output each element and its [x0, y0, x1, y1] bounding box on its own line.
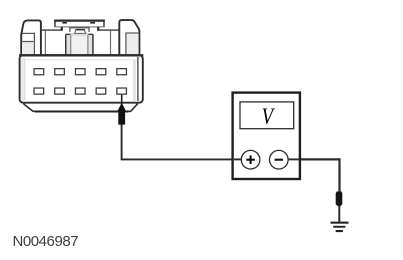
inline probe on ground lead: [336, 192, 343, 208]
voltmeter body: [233, 93, 300, 179]
latch tab: [75, 30, 86, 34]
connector latch bar: [54, 20, 105, 28]
connector left tab: [21, 20, 41, 56]
pin cavity 3 row 1: [75, 69, 85, 75]
pin cavity 5 row 2 (probed): [117, 88, 127, 94]
pin cavity 2 row 1: [55, 69, 65, 75]
latch supports: [61, 27, 63, 31]
pin cavity 1 row 1: [34, 69, 44, 75]
wire from connector pin to voltmeter positive lead: [122, 122, 233, 159]
connector housing base: [20, 55, 143, 102]
housing left inner shade: [21, 58, 25, 101]
latch stem inner walls: [67, 35, 93, 55]
housing right inner wall: [133, 60, 136, 101]
connector face top edge: [41, 29, 119, 31]
wire from voltmeter negative lead to ground: [300, 159, 340, 194]
face ribs: [44, 31, 46, 55]
housing top edge thick line: [19, 54, 143, 56]
connector right tab: [119, 20, 139, 56]
connector bottom skirt: [24, 97, 137, 111]
label N0046987: [13, 233, 79, 250]
latch stem: [66, 34, 93, 55]
pin cavity 5 row 1: [117, 69, 127, 75]
pin cavity 3 row 2: [75, 88, 85, 94]
pin cavity 4 row 2: [96, 88, 106, 94]
pin cavity 4 row 1: [96, 69, 106, 75]
housing face shading line: [22, 59, 138, 61]
ground symbol: [331, 222, 349, 233]
voltmeter internal lead wires: [234, 158, 241, 160]
left tab inner lines: [22, 42, 34, 54]
pin cavity 1 row 2: [34, 88, 44, 94]
wire from probe to ground: [338, 206, 340, 222]
voltmeter display window: [240, 102, 294, 129]
voltmeter positive terminal: [241, 150, 260, 169]
test probe lead at pin 5: [121, 95, 123, 105]
pin cavity 2 row 2: [55, 88, 65, 94]
right tab inner lines: [127, 34, 139, 55]
latch button: [70, 28, 89, 32]
voltmeter negative terminal: [270, 150, 289, 169]
latch bar ticks: [62, 22, 67, 24]
test probe arrow: [117, 103, 126, 125]
